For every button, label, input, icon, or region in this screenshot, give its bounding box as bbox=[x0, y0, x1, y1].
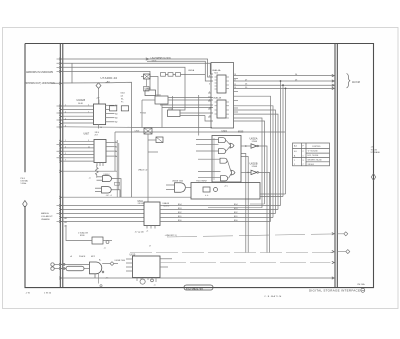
svg-text:BD0: BD0 bbox=[178, 220, 182, 222]
resistor pack R609 bbox=[121, 106, 128, 111]
svg-text:"0" 74LS240: "0" 74LS240 bbox=[308, 151, 318, 153]
U601 input wires bbox=[196, 140, 221, 178]
capacitor block C916 bbox=[135, 128, 153, 134]
wire bbox=[63, 71, 150, 90]
part number strip bbox=[184, 285, 213, 290]
svg-text:A6: A6 bbox=[65, 217, 67, 220]
svg-text:1 SLALOM: 1 SLALOM bbox=[78, 231, 88, 234]
top wires from left bus bbox=[63, 59, 213, 197]
IC U610 bbox=[130, 253, 161, 277]
svg-text:74LS74: 74LS74 bbox=[163, 206, 169, 208]
svg-text:7415: 7415 bbox=[214, 73, 218, 75]
svg-text:2: 2 bbox=[303, 151, 304, 153]
tag box bbox=[115, 182, 120, 185]
svg-text:2: 2 bbox=[209, 100, 210, 102]
wire from left label to bus bbox=[52, 82, 61, 84]
svg-text:A4: A4 bbox=[65, 221, 67, 224]
svg-text:80-: 80- bbox=[121, 99, 124, 101]
svg-text:17: 17 bbox=[234, 80, 236, 82]
verticals right of U607 bbox=[117, 140, 119, 197]
svg-text:DIGITAL STORAGE INTERFACE: DIGITAL STORAGE INTERFACE bbox=[309, 289, 360, 293]
svg-text:4-9: 4-9 bbox=[294, 151, 297, 153]
svg-text:BD1: BD1 bbox=[234, 216, 238, 218]
gates inside U601 bbox=[214, 138, 235, 181]
wire mid to column bbox=[63, 82, 132, 197]
delay line block bbox=[66, 266, 84, 271]
svg-text:21: 21 bbox=[209, 116, 211, 118]
svg-text:110 KM: 110 KM bbox=[352, 82, 360, 84]
svg-text:(SHOWN OUT) UNKNOWN: (SHOWN OUT) UNKNOWN bbox=[25, 82, 55, 85]
Y601 outputs bbox=[260, 194, 286, 197]
svg-text:U16A05: U16A05 bbox=[77, 99, 86, 102]
svg-text:U607: U607 bbox=[84, 132, 90, 135]
pin number marks left ICs bbox=[65, 105, 90, 162]
svg-text:5: 5 bbox=[65, 153, 66, 155]
svg-text:74LS04: 74LS04 bbox=[308, 164, 314, 166]
wires from center boxes to U613 bbox=[115, 95, 285, 171]
svg-text:A2: A2 bbox=[115, 121, 117, 124]
svg-text:SHOWN" 74L240: SHOWN" 74L240 bbox=[308, 159, 322, 161]
left connector bus P601 bbox=[60, 44, 63, 287]
svg-text:D4: D4 bbox=[295, 74, 297, 76]
svg-text:U605A: U605A bbox=[188, 69, 195, 72]
svg-text:2: 2 bbox=[294, 164, 295, 166]
U608 output stubs bbox=[106, 105, 115, 122]
svg-text:TO DIG: TO DIG bbox=[371, 149, 378, 151]
svg-text:STORAGE: STORAGE bbox=[371, 151, 381, 154]
crystal box Y601 bbox=[191, 181, 260, 199]
extra pin stubs U613 right side bbox=[234, 79, 239, 113]
brace group label bbox=[347, 74, 360, 88]
svg-text:1: 1 bbox=[294, 160, 295, 162]
bus wires to U611 bbox=[63, 206, 144, 222]
gate U602B bbox=[241, 162, 270, 253]
svg-text:D5: D5 bbox=[245, 87, 247, 89]
sub IC U613B bbox=[217, 100, 226, 118]
svg-text:U602A: U602A bbox=[250, 136, 258, 140]
svg-text:23: 23 bbox=[209, 108, 211, 110]
capacitor C908 bbox=[144, 87, 150, 92]
svg-text:JPACK CD: JPACK CD bbox=[138, 169, 148, 172]
U613 outputs to vertical bundle bbox=[234, 81, 286, 222]
wire bbox=[147, 61, 213, 81]
schematic border frame bbox=[25, 44, 374, 288]
svg-text:+5V: +5V bbox=[106, 82, 111, 84]
svg-text:DIGITAL: DIGITAL bbox=[21, 180, 30, 183]
svg-text:D6: D6 bbox=[245, 84, 247, 86]
U610 right stubs bbox=[160, 259, 172, 267]
svg-text:11: 11 bbox=[88, 147, 90, 149]
signal table bbox=[293, 143, 330, 166]
svg-text:A6: A6 bbox=[115, 104, 117, 107]
IC U607 bbox=[84, 132, 107, 163]
svg-text:9: 9 bbox=[88, 140, 89, 142]
svg-text:50-80: 50-80 bbox=[78, 103, 83, 105]
svg-text:16: 16 bbox=[100, 127, 102, 129]
wire long mid-left bbox=[63, 170, 117, 172]
off-page diamond on left frame bbox=[23, 201, 28, 208]
gate U614 bbox=[90, 262, 104, 284]
right connector bus P602 bbox=[335, 44, 337, 287]
svg-text:4.7 ay 140: 4.7 ay 140 bbox=[135, 231, 144, 233]
verticals from U601 right outputs bbox=[241, 154, 248, 253]
pin number labels bbox=[65, 217, 67, 228]
wire labels top bbox=[245, 74, 297, 89]
svg-text:4: 4 bbox=[65, 112, 66, 114]
svg-text:PLACE: PLACE bbox=[79, 255, 86, 258]
svg-text:74S08: 74S08 bbox=[252, 141, 257, 143]
small boxes center-left bbox=[145, 87, 156, 95]
U607 bottom stubs bbox=[97, 163, 103, 167]
U611 bottom stubs bbox=[147, 226, 155, 229]
svg-text:7: 7 bbox=[65, 160, 66, 162]
svg-text:7: 7 bbox=[88, 112, 89, 114]
svg-text:D7: D7 bbox=[245, 79, 247, 81]
svg-text:CM 14A: CM 14A bbox=[357, 283, 365, 286]
svg-text:3: 3 bbox=[65, 147, 66, 149]
svg-text:18: 18 bbox=[234, 74, 236, 76]
svg-text:U602B: U602B bbox=[250, 162, 258, 166]
svg-text:4-6: 4-6 bbox=[121, 96, 124, 98]
bus pin chevrons (left bus) bbox=[59, 58, 61, 279]
svg-text:U605: U605 bbox=[152, 61, 157, 63]
left margin bottom labels bbox=[41, 212, 53, 221]
long wire to Y601 box bbox=[63, 196, 191, 198]
off-page diamond on right frame bbox=[371, 174, 375, 181]
U613 pin number marks bbox=[209, 74, 236, 117]
wire 5MHz top bbox=[63, 59, 213, 77]
svg-text:74S08: 74S08 bbox=[252, 166, 257, 168]
gate U606B bbox=[166, 180, 191, 192]
svg-text:+5: +5 bbox=[154, 285, 156, 287]
svg-text:LOG ABOUT: LOG ABOUT bbox=[41, 215, 53, 218]
svg-text:BD4: BD4 bbox=[234, 204, 238, 206]
svg-text:672-0851-00: 672-0851-00 bbox=[186, 286, 203, 290]
svg-text:8: 8 bbox=[209, 76, 210, 78]
U608 input wires from bus bbox=[63, 106, 132, 127]
IC U611 bbox=[138, 201, 170, 226]
resistor network block bbox=[66, 226, 112, 250]
U613 left pin stubs bbox=[208, 93, 211, 117]
svg-text:+ +: + + bbox=[205, 194, 209, 197]
svg-text:BD3: BD3 bbox=[234, 208, 238, 210]
labels above gate U614 bbox=[70, 255, 102, 261]
right frame gap note bbox=[371, 147, 381, 155]
wires into gate U614 bbox=[63, 264, 89, 268]
sheet title bbox=[309, 288, 365, 292]
crystal symbol label UNAVOID bbox=[96, 76, 118, 104]
svg-text:L3A 5MHZ CLOCK: L3A 5MHZ CLOCK bbox=[151, 57, 172, 60]
wire name smudges bbox=[178, 204, 238, 222]
long wires lower right bbox=[130, 234, 334, 263]
U607 output stubs bbox=[106, 142, 115, 156]
svg-text:257: 257 bbox=[95, 134, 98, 136]
svg-text:MADE A: MADE A bbox=[41, 212, 49, 215]
svg-text:1 W 16: 1 W 16 bbox=[44, 292, 52, 294]
svg-text:U601: U601 bbox=[222, 130, 228, 133]
svg-text:U614B 7404: U614B 7404 bbox=[115, 260, 126, 262]
diamond at U614 output bbox=[110, 262, 114, 266]
svg-text:U7A00D-02: U7A00D-02 bbox=[101, 76, 118, 80]
svg-text:+5(MOSTLY): +5(MOSTLY) bbox=[165, 235, 177, 237]
svg-text:+5 C: +5 C bbox=[224, 185, 229, 187]
svg-text:+5: +5 bbox=[89, 177, 91, 179]
svg-text:ARROWS IN UNKNOWN: ARROWS IN UNKNOWN bbox=[26, 71, 53, 74]
svg-text:1: 1 bbox=[303, 156, 304, 158]
svg-text:+5: +5 bbox=[104, 248, 106, 250]
svg-text:U6A0-08: U6A0-08 bbox=[213, 97, 222, 100]
junction dots bbox=[245, 80, 286, 173]
svg-text:D3: D3 bbox=[295, 79, 297, 81]
U610 left stubs bbox=[126, 259, 133, 271]
resistor pack R608 bbox=[110, 106, 117, 111]
filter caps row bbox=[161, 73, 206, 77]
svg-text:UNMADE: UNMADE bbox=[41, 218, 50, 221]
long bottom wire bbox=[63, 277, 335, 279]
sub IC U613A bbox=[217, 75, 226, 93]
wire bbox=[63, 63, 213, 74]
svg-text:5 MHz: 5 MHz bbox=[21, 183, 27, 185]
U602 mini label stack bbox=[121, 93, 125, 104]
svg-text:A3: A3 bbox=[115, 117, 117, 120]
svg-text:A2: A2 bbox=[65, 225, 67, 228]
U608 output pin labels bbox=[115, 104, 117, 123]
gate U602A bbox=[241, 136, 267, 252]
U607 input wires from bus bbox=[63, 141, 94, 161]
svg-text:14: 14 bbox=[234, 87, 236, 89]
gate U606C bbox=[97, 176, 122, 198]
gate U606D bbox=[95, 187, 120, 198]
capacitor block C917 bbox=[148, 134, 163, 202]
U610 bottom parts bbox=[137, 278, 156, 285]
svg-text:U606B 7405: U606B 7405 bbox=[172, 180, 184, 182]
IC U608 bbox=[77, 98, 106, 130]
label L3A 5MHz with arrow bbox=[146, 57, 171, 63]
svg-text:+5C +1: +5C +1 bbox=[106, 195, 112, 197]
bus pin chevrons (right bus) bbox=[332, 74, 334, 279]
resistor to +5 bbox=[95, 165, 98, 178]
svg-text:BD4: BD4 bbox=[178, 204, 182, 206]
U611 outputs to bends bbox=[160, 206, 281, 222]
svg-text:6: 6 bbox=[209, 84, 210, 86]
svg-text:4: 4 bbox=[209, 92, 210, 94]
svg-text:7: 7 bbox=[303, 164, 304, 166]
svg-text:+5: +5 bbox=[146, 231, 148, 233]
svg-text:CONTROL: CONTROL bbox=[312, 146, 321, 148]
off-page note on left frame bbox=[21, 178, 30, 185]
svg-text:U606C: U606C bbox=[104, 174, 111, 176]
svg-text:C.B.MATLM: C.B.MATLM bbox=[264, 295, 281, 298]
bus pin stubs left of bus bbox=[57, 59, 61, 222]
svg-text:BD1: BD1 bbox=[178, 216, 182, 218]
svg-text:5: 5 bbox=[88, 105, 89, 107]
U607 output labels bbox=[115, 141, 118, 158]
svg-text:U602: U602 bbox=[121, 93, 125, 95]
svg-text:15: 15 bbox=[234, 84, 236, 86]
svg-text:3: 3 bbox=[303, 160, 304, 162]
svg-text:U6A0-0A: U6A0-0A bbox=[212, 69, 221, 72]
svg-text:6: 6 bbox=[65, 119, 66, 121]
svg-text:BD2: BD2 bbox=[234, 212, 238, 214]
svg-text:8935: 8935 bbox=[238, 131, 244, 134]
svg-text:8: 8 bbox=[65, 126, 66, 128]
U613 lower right wires bbox=[208, 118, 265, 208]
svg-text:PwGA: PwGA bbox=[140, 111, 146, 114]
IC U613 outer block bbox=[211, 63, 234, 129]
gate array box U601 bbox=[212, 130, 244, 182]
svg-text:MC2: MC2 bbox=[91, 256, 95, 258]
svg-text:17: 17 bbox=[149, 245, 151, 247]
wire bbox=[63, 67, 185, 110]
svg-text:BD3: BD3 bbox=[178, 208, 182, 210]
svg-text:8-15, 74LS04: 8-15, 74LS04 bbox=[308, 155, 319, 157]
svg-text:Pn: Pn bbox=[121, 102, 123, 104]
svg-text:2: 2 bbox=[65, 105, 66, 107]
bottom-left connector pins bbox=[51, 263, 63, 271]
svg-text:A4: A4 bbox=[115, 112, 117, 115]
svg-text:BD0: BD0 bbox=[234, 220, 238, 222]
vertical tie bbox=[71, 63, 73, 83]
U613 outputs to right bus bbox=[234, 76, 335, 89]
svg-text:1: 1 bbox=[65, 140, 66, 142]
diamond bbox=[96, 83, 101, 89]
diamonds right of bus bbox=[344, 232, 348, 236]
svg-text:BD2: BD2 bbox=[178, 212, 182, 214]
